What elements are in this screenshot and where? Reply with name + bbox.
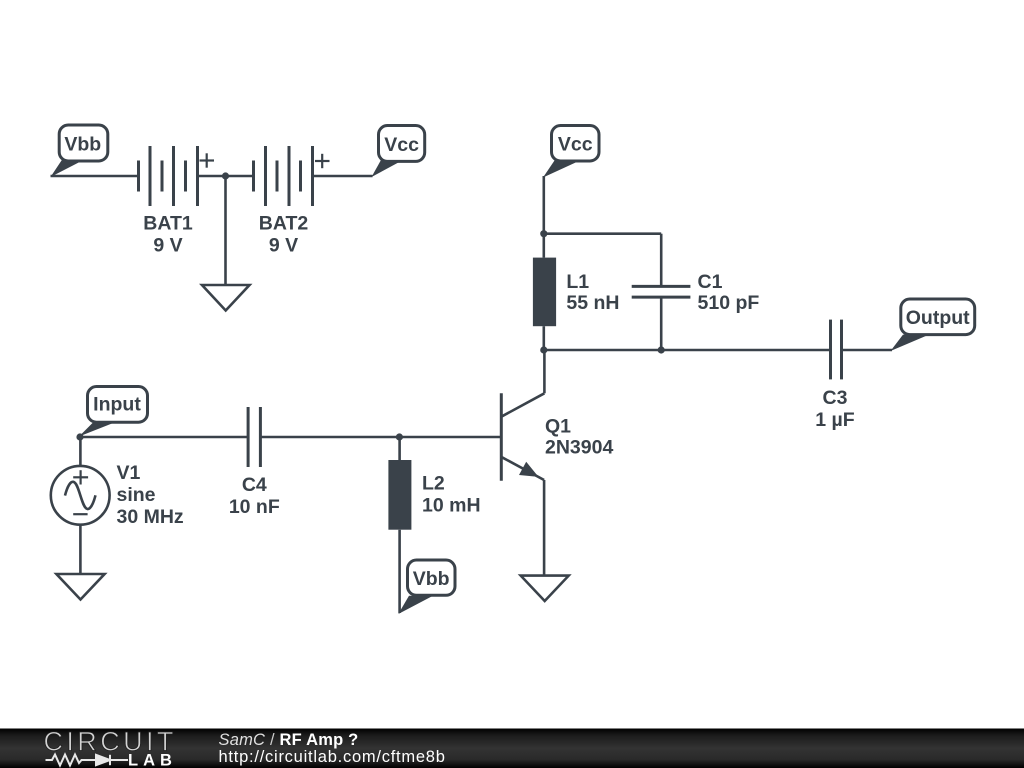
net label Output xyxy=(891,299,975,351)
L1 value labels xyxy=(566,271,619,314)
wire: collector node to C3 xyxy=(544,349,831,352)
wire: BAT1 positive to BAT2 negative xyxy=(198,175,254,178)
junction between batteries xyxy=(222,172,229,179)
junction at L1/C1 top xyxy=(540,230,547,237)
svg-text:V1: V1 xyxy=(117,462,141,484)
L2 value labels xyxy=(422,472,481,516)
C4 value labels xyxy=(229,474,280,518)
svg-text:Q1: Q1 xyxy=(545,415,571,437)
svg-text:SamC / RF Amp ?: SamC / RF Amp ? xyxy=(219,731,359,749)
emitter diagonal xyxy=(502,457,544,480)
net label Input xyxy=(79,387,148,437)
svg-text:L1: L1 xyxy=(566,271,589,293)
voltage source V1 xyxy=(51,437,110,574)
svg-text:9 V: 9 V xyxy=(269,235,298,257)
junction at L2 tap xyxy=(396,433,403,440)
ground (battery midpoint) xyxy=(202,285,250,311)
transistor Q1 (NPN 2N3904) xyxy=(501,350,544,576)
svg-text:sine: sine xyxy=(117,484,156,506)
junction at input node xyxy=(76,433,83,440)
net label Vbb (top-left flag) xyxy=(51,125,108,177)
battery BAT2 xyxy=(254,146,313,206)
Q1 value labels xyxy=(545,415,613,458)
wire: C1 bottom plate to output node xyxy=(660,297,663,350)
capacitor C3 xyxy=(831,320,842,380)
V1 value labels xyxy=(117,462,184,528)
net label Vbb (bias flag at L2 bottom) xyxy=(398,560,455,614)
net label Vcc (top-left area flag) xyxy=(372,126,425,178)
svg-text:http://circuitlab.com/cftme8b: http://circuitlab.com/cftme8b xyxy=(219,748,446,766)
wire: Vbb flag to BAT1 negative xyxy=(51,175,139,178)
ground (emitter) xyxy=(521,576,569,601)
logo resistor-diode strikethrough xyxy=(46,755,129,766)
svg-text:BAT1: BAT1 xyxy=(143,213,193,235)
BAT2 value labels xyxy=(259,213,309,257)
C3 value labels xyxy=(815,387,854,431)
ground (V1) xyxy=(56,574,104,600)
svg-text:Vcc: Vcc xyxy=(384,134,419,156)
collector wire xyxy=(543,350,546,393)
collector diagonal xyxy=(502,393,544,416)
svg-text:9 V: 9 V xyxy=(153,235,182,257)
junction at collector node (L1 bottom) xyxy=(540,346,547,353)
wire: junction down to ground xyxy=(224,176,227,285)
svg-text:55 nH: 55 nH xyxy=(566,292,619,314)
svg-text:C1: C1 xyxy=(698,271,723,293)
wire: BAT2 positive to Vcc flag xyxy=(313,175,373,178)
svg-text:Vcc: Vcc xyxy=(558,134,593,156)
capacitor C1 xyxy=(632,286,691,297)
inductor L1 xyxy=(533,234,556,350)
svg-text:C4: C4 xyxy=(242,474,267,496)
C1 value labels xyxy=(698,271,760,314)
emitter arrow xyxy=(519,462,539,477)
net label Vcc (supply to L1, center top flag) xyxy=(543,126,599,178)
svg-text:510 pF: 510 pF xyxy=(698,292,760,314)
wire: down to C1 top plate xyxy=(660,234,663,287)
wire: C3 to Output flag xyxy=(842,349,893,352)
svg-text:Vbb: Vbb xyxy=(64,133,101,155)
plus mark xyxy=(73,470,88,484)
battery BAT1 xyxy=(139,146,198,206)
svg-text:L2: L2 xyxy=(422,472,445,494)
wire: Vcc flag down to node xyxy=(542,176,545,234)
base bar xyxy=(500,393,503,481)
sine mark xyxy=(65,482,96,509)
footer bar xyxy=(0,727,1024,768)
wire: input node to C4 xyxy=(80,436,248,439)
CircuitLab logo wordmark xyxy=(44,727,177,757)
svg-text:10 nF: 10 nF xyxy=(229,496,280,518)
inductor L2 xyxy=(388,437,411,613)
BAT1 plus sign xyxy=(200,153,215,167)
svg-text:Vbb: Vbb xyxy=(413,568,450,590)
emitter wire xyxy=(543,480,546,576)
svg-text:10 mH: 10 mH xyxy=(422,495,481,517)
svg-text:Input: Input xyxy=(93,394,141,416)
wire: top node to C1 branch xyxy=(544,232,661,235)
junction at C1 bottom xyxy=(658,346,665,353)
svg-text:30 MHz: 30 MHz xyxy=(117,506,184,528)
svg-text:C3: C3 xyxy=(823,387,848,409)
svg-text:LAB: LAB xyxy=(128,752,177,768)
BAT2 plus sign xyxy=(315,154,330,168)
BAT1 value labels xyxy=(143,213,193,257)
wire: C4 to Q1 base xyxy=(260,436,500,439)
minus mark xyxy=(73,513,87,515)
capacitor C4 xyxy=(248,407,260,467)
svg-text:1 µF: 1 µF xyxy=(815,409,854,431)
svg-text:BAT2: BAT2 xyxy=(259,213,309,235)
svg-text:2N3904: 2N3904 xyxy=(545,436,613,458)
svg-text:Output: Output xyxy=(906,307,970,329)
